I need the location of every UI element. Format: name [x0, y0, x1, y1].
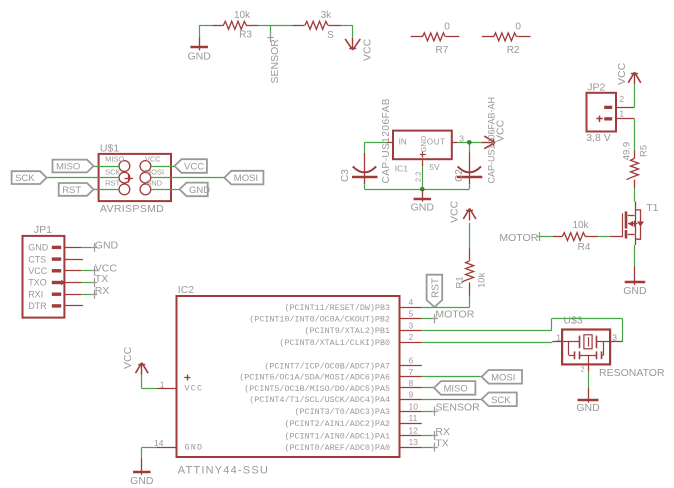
svg-text:R7: R7 — [436, 45, 449, 56]
svg-text:49.9: 49.9 — [622, 142, 633, 161]
svg-text:C2: C2 — [454, 169, 465, 182]
svg-text:3: 3 — [459, 134, 464, 144]
svg-text:GND: GND — [189, 185, 210, 196]
svg-text:3: 3 — [612, 333, 617, 343]
svg-text:6: 6 — [409, 355, 414, 365]
svg-text:RST: RST — [62, 185, 81, 196]
svg-text:VCC: VCC — [449, 200, 461, 223]
svg-text:GND: GND — [576, 402, 600, 414]
svg-text:RX: RX — [435, 426, 450, 438]
svg-text:CTS: CTS — [28, 254, 46, 264]
svg-text:TX: TX — [95, 273, 108, 285]
svg-text:T1: T1 — [646, 202, 658, 214]
svg-text:R4: R4 — [578, 242, 591, 253]
svg-text:GND: GND — [419, 135, 428, 152]
svg-text:VCC: VCC — [28, 266, 48, 276]
svg-text:1: 1 — [160, 379, 165, 389]
svg-text:VCC: VCC — [495, 119, 507, 142]
svg-text:4: 4 — [409, 297, 414, 307]
svg-text:VCC: VCC — [362, 38, 374, 61]
svg-text:RST: RST — [105, 179, 120, 188]
svg-text:GND: GND — [130, 475, 154, 487]
svg-text:R1: R1 — [454, 276, 465, 288]
svg-text:8: 8 — [409, 378, 414, 388]
svg-text:GND: GND — [95, 240, 119, 252]
svg-text:VCC: VCC — [185, 383, 204, 393]
svg-text:RST: RST — [430, 278, 441, 298]
svg-text:SENSOR: SENSOR — [435, 402, 480, 414]
svg-text:(PCINT7/ICP/OC0B/ADC7)PA7: (PCINT7/ICP/OC0B/ADC7)PA7 — [264, 361, 390, 371]
svg-text:VCC: VCC — [184, 162, 204, 173]
svg-text:CAP-US1206FAB-AH: CAP-US1206FAB-AH — [486, 97, 496, 184]
svg-text:RX: RX — [95, 285, 110, 297]
svg-text:(PCINT1/AIN0/ADC1)PA1: (PCINT1/AIN0/ADC1)PA1 — [284, 431, 390, 441]
svg-text:3k: 3k — [321, 10, 333, 21]
svg-text:12: 12 — [409, 426, 419, 436]
svg-text:R2: R2 — [507, 45, 520, 56]
svg-text:3,8 V: 3,8 V — [586, 132, 611, 144]
svg-text:JP2: JP2 — [587, 82, 605, 94]
svg-text:DTR: DTR — [28, 301, 47, 311]
svg-text:10k: 10k — [234, 10, 251, 21]
svg-text:VCC: VCC — [145, 155, 161, 164]
svg-text:10k: 10k — [572, 220, 589, 231]
svg-text:C3: C3 — [340, 169, 351, 182]
svg-text:7: 7 — [409, 367, 414, 377]
svg-text:1: 1 — [619, 108, 624, 118]
svg-text:CAP-US1206FAB: CAP-US1206FAB — [381, 98, 392, 183]
svg-text:2: 2 — [581, 366, 585, 373]
svg-text:3: 3 — [409, 320, 414, 330]
svg-text:TXO: TXO — [28, 278, 47, 288]
svg-text:(PCINT11/RESET/DW)PB3: (PCINT11/RESET/DW)PB3 — [284, 303, 390, 313]
svg-text:AVRISPSMD: AVRISPSMD — [100, 203, 164, 215]
svg-text:U$3: U$3 — [563, 314, 582, 326]
svg-text:(PCINT9/XTAL2)PB1: (PCINT9/XTAL2)PB1 — [305, 326, 390, 336]
svg-text:JP1: JP1 — [34, 224, 52, 236]
svg-text:(PCINT8/XTAL1/CLKI)PB0: (PCINT8/XTAL1/CLKI)PB0 — [279, 338, 390, 348]
svg-text:(PCINT0/AREF/ADC0)PA0: (PCINT0/AREF/ADC0)PA0 — [284, 443, 390, 453]
svg-text:TX: TX — [435, 437, 448, 449]
svg-text:(PCINT2/AIN1/ADC2)PA2: (PCINT2/AIN1/ADC2)PA2 — [284, 419, 390, 429]
svg-text:IC1: IC1 — [395, 164, 409, 174]
svg-text:GND: GND — [623, 285, 647, 297]
svg-text:11: 11 — [409, 413, 418, 423]
svg-text:10: 10 — [409, 401, 419, 411]
svg-text:GND: GND — [411, 202, 435, 214]
svg-text:10k: 10k — [477, 272, 488, 288]
svg-text:MOTOR: MOTOR — [435, 308, 474, 320]
svg-text:IN: IN — [399, 138, 407, 147]
svg-text:VCC: VCC — [122, 346, 134, 369]
svg-text:R3: R3 — [239, 30, 252, 41]
svg-text:0: 0 — [515, 21, 521, 32]
svg-text:MOSI: MOSI — [234, 173, 258, 184]
svg-text:IC2: IC2 — [178, 284, 195, 296]
svg-text:5: 5 — [409, 309, 414, 319]
svg-text:OUT: OUT — [427, 138, 446, 147]
svg-text:(PCINT5/OC1B/MISO/DO/ADC5)PA5: (PCINT5/OC1B/MISO/DO/ADC5)PA5 — [244, 384, 390, 394]
svg-text:RXI: RXI — [28, 289, 43, 299]
svg-text:SCK: SCK — [15, 173, 35, 184]
svg-text:MISO: MISO — [56, 162, 80, 173]
svg-text:SCK: SCK — [491, 395, 511, 406]
svg-text:5V: 5V — [429, 162, 440, 172]
svg-text:2.2: 2.2 — [414, 172, 423, 182]
svg-text:VCC: VCC — [616, 62, 628, 85]
svg-text:SENSOR: SENSOR — [269, 39, 281, 84]
svg-text:MOSI: MOSI — [491, 372, 515, 383]
svg-text:S: S — [327, 30, 334, 41]
svg-text:GND: GND — [28, 243, 49, 253]
svg-text:GND: GND — [185, 442, 204, 452]
svg-text:9: 9 — [409, 389, 414, 399]
svg-text:2: 2 — [619, 94, 624, 104]
svg-text:2: 2 — [409, 332, 414, 342]
svg-text:GND: GND — [145, 179, 162, 188]
svg-text:SCK: SCK — [105, 167, 120, 176]
svg-text:ATTINY44-SSU: ATTINY44-SSU — [178, 465, 269, 477]
svg-text:(PCINT4/T1/SCL/USCK/ADC4)PA4: (PCINT4/T1/SCL/USCK/ADC4)PA4 — [249, 395, 390, 405]
svg-text:GND: GND — [188, 50, 212, 62]
svg-text:0: 0 — [444, 21, 450, 32]
svg-text:MISO: MISO — [444, 383, 468, 394]
svg-text:MISO: MISO — [105, 155, 124, 164]
svg-text:MOTOR: MOTOR — [499, 232, 538, 244]
svg-text:1: 1 — [556, 333, 561, 343]
svg-text:14: 14 — [154, 438, 164, 448]
svg-text:(PCINT6/OC1A/SDA/MOSI/ADC6)PA6: (PCINT6/OC1A/SDA/MOSI/ADC6)PA6 — [239, 373, 390, 383]
svg-text:U$1: U$1 — [100, 142, 119, 154]
svg-text:13: 13 — [409, 437, 419, 447]
svg-text:(PCINT3/T0/ADC3)PA3: (PCINT3/T0/ADC3)PA3 — [295, 407, 391, 417]
svg-text:RESONATOR: RESONATOR — [599, 367, 665, 379]
svg-text:MOSI: MOSI — [145, 167, 164, 176]
svg-text:(PCINT10/INT0/OC0A/CKOUT)PB2: (PCINT10/INT0/OC0A/CKOUT)PB2 — [249, 315, 390, 325]
svg-text:R5: R5 — [638, 145, 649, 157]
